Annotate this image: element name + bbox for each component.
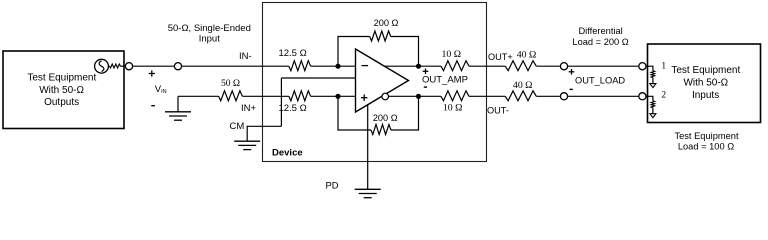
svg-text:Input: Input xyxy=(199,34,220,45)
svg-text:Load = 200 Ω: Load = 200 Ω xyxy=(572,37,628,47)
svg-text:200 Ω: 200 Ω xyxy=(374,18,399,28)
svg-text:40 Ω: 40 Ω xyxy=(513,80,533,91)
svg-text:2: 2 xyxy=(661,91,666,101)
svg-text:12.5 Ω: 12.5 Ω xyxy=(278,103,306,114)
svg-text:IN+: IN+ xyxy=(241,103,257,114)
svg-text:Test Equipment: Test Equipment xyxy=(671,65,740,76)
svg-text:OUT_LOAD: OUT_LOAD xyxy=(575,75,625,85)
svg-text:Load = 100 Ω: Load = 100 Ω xyxy=(678,141,734,151)
svg-text:50-Ω, Single-Ended: 50-Ω, Single-Ended xyxy=(168,23,251,34)
svg-text:10 Ω: 10 Ω xyxy=(442,49,462,60)
svg-text:PD: PD xyxy=(326,180,339,191)
svg-text:Test Equipment: Test Equipment xyxy=(674,131,738,141)
svg-text:50 Ω: 50 Ω xyxy=(221,78,240,89)
svg-text:OUT_AMP: OUT_AMP xyxy=(422,74,468,85)
svg-text:IN-: IN- xyxy=(239,51,252,62)
svg-text:OUT-: OUT- xyxy=(487,106,509,116)
svg-text:10 Ω: 10 Ω xyxy=(443,102,463,113)
svg-text:Differential: Differential xyxy=(578,26,622,36)
svg-text:Test Equipment: Test Equipment xyxy=(27,73,96,84)
svg-text:OUT+: OUT+ xyxy=(488,52,513,62)
svg-text:With 50-Ω: With 50-Ω xyxy=(683,77,728,88)
svg-text:With 50-Ω: With 50-Ω xyxy=(39,85,84,96)
svg-text:Outputs: Outputs xyxy=(44,97,79,108)
svg-text:12.5 Ω: 12.5 Ω xyxy=(278,48,306,59)
svg-text:1: 1 xyxy=(661,61,666,71)
svg-text:CM: CM xyxy=(230,121,245,132)
svg-text:40 Ω: 40 Ω xyxy=(517,49,537,60)
svg-text:Device: Device xyxy=(272,147,303,158)
svg-text:200 Ω: 200 Ω xyxy=(373,113,398,123)
svg-text:IN: IN xyxy=(161,89,167,95)
svg-text:Inputs: Inputs xyxy=(692,90,719,101)
